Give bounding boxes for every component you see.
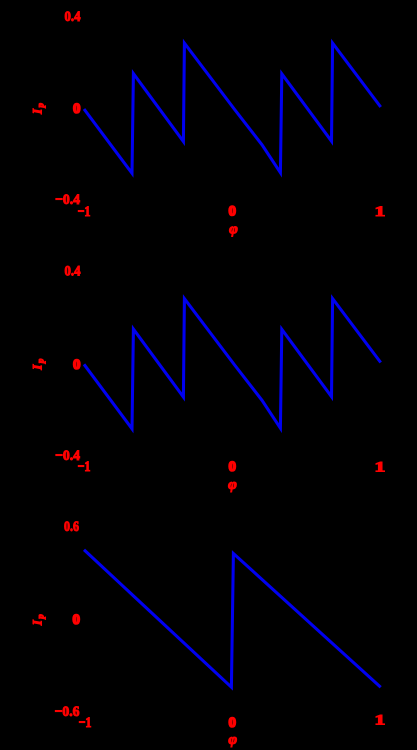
svg-text:φ: φ: [229, 222, 238, 238]
svg-text:−1: −1: [79, 715, 92, 731]
svg-text:0: 0: [228, 459, 236, 475]
curve: persistent current sawtooth, panel 1: [84, 43, 381, 173]
svg-text:0: 0: [73, 357, 81, 373]
svg-text:1: 1: [375, 712, 386, 729]
svg-text:−0.6: −0.6: [55, 704, 80, 720]
svg-text:0: 0: [73, 101, 81, 117]
svg-text:φ: φ: [228, 477, 237, 493]
svg-text:1: 1: [375, 203, 386, 220]
svg-text:0: 0: [73, 612, 81, 628]
svg-text:1: 1: [375, 459, 386, 476]
svg-text:0: 0: [228, 203, 236, 219]
svg-text:−1: −1: [78, 459, 91, 475]
svg-text:0.4: 0.4: [65, 9, 81, 25]
svg-text:0.6: 0.6: [64, 519, 79, 535]
svg-text:φ: φ: [228, 732, 237, 748]
curve: persistent current sawtooth, panel 3: [84, 550, 381, 688]
svg-text:−1: −1: [78, 204, 91, 220]
curve: persistent current sawtooth, panel 2: [84, 299, 381, 429]
svg-text:0.4: 0.4: [65, 264, 81, 280]
svg-text:0: 0: [228, 715, 236, 731]
